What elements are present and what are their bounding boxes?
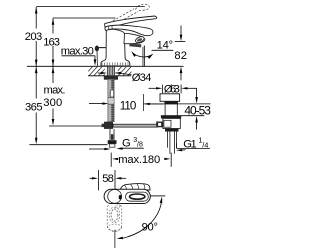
svg-text:90°: 90° (142, 222, 158, 234)
pop-up rod behind body (96, 51, 99, 66)
pop-up rod knob (95, 46, 107, 52)
pop-up waste tailpipe (167, 132, 176, 154)
pop-up waste plug cap (160, 94, 180, 102)
dimension max.300 (43, 67, 65, 126)
faucet spout bump (124, 33, 145, 43)
faucet shank lower threaded section (108, 104, 114, 122)
dimension 40-53 (184, 88, 211, 129)
faucet shank upper threaded section (108, 79, 114, 97)
dimension 163 (43, 18, 60, 66)
spout outlet face (135, 35, 145, 43)
pop-up waste plug underside band (165, 101, 178, 104)
label 90 degrees with arc (117, 197, 163, 240)
pop-up waste locknut (165, 129, 179, 132)
faucet shank smooth section (108, 98, 114, 105)
svg-text:max.: max. (44, 84, 66, 96)
pop-up waste neck (165, 104, 177, 116)
svg-text:G: G (122, 137, 131, 149)
pop-up waste rod connector (156, 122, 163, 128)
dimension Ø34 (98, 72, 152, 84)
pop-up waste body box (163, 118, 180, 128)
dimension 110 (89, 94, 163, 112)
wire top reference line 203 (36, 6, 145, 8)
wire 40-53 upper reference line (144, 103, 211, 105)
pop-up rod pivot block (102, 122, 113, 129)
dimension max.180 (111, 153, 171, 167)
svg-text:110: 110 (120, 99, 137, 112)
label max.30 with leader (61, 45, 97, 66)
label 14 degrees with arc (131, 40, 173, 59)
svg-text:58: 58 (102, 173, 114, 185)
faucet lever raised solid blade (105, 16, 157, 29)
svg-text:365: 365 (25, 102, 43, 114)
faucet lever closed solid blade (105, 25, 153, 36)
svg-text:max.180: max.180 (118, 154, 160, 166)
wire top view swivel reference line (151, 195, 166, 197)
wire max.300 extension line (49, 125, 104, 127)
wire deck bottom line (88, 75, 131, 77)
wire swivel end extension line (114, 230, 116, 248)
faucet base plinth shading (102, 63, 128, 66)
dimension 203 (25, 7, 42, 66)
faucet shank through-deck section (108, 66, 115, 76)
dimension 58 (90, 170, 127, 190)
dimension 82 (174, 26, 187, 81)
wire 365 extension line (29, 144, 107, 146)
faucet lever raised dashed (107, 4, 150, 26)
svg-text:40-53: 40-53 (184, 103, 211, 117)
svg-text:82: 82 (174, 50, 187, 62)
wire reference line 163 (53, 17, 116, 19)
top view lever blob (120, 184, 150, 190)
spout aerator band (129, 44, 141, 48)
pop-up linkage horizontal rod (113, 124, 158, 127)
svg-text:Ø34: Ø34 (132, 72, 152, 84)
deck hatching right (113, 66, 137, 77)
svg-text:/8: /8 (137, 141, 143, 148)
svg-text:G1: G1 (183, 138, 197, 150)
label G1 1/4 with leader (176, 136, 210, 152)
pop-up waste basin flange (161, 116, 181, 119)
top view rotated spout (swivel position) (107, 202, 122, 232)
deck hatching left (84, 66, 113, 77)
wire 40-53 lower reference line (161, 115, 204, 117)
shank washer under deck (104, 76, 118, 80)
label G3/8 with arrows (89, 137, 144, 150)
dimension Ø63 (149, 83, 197, 95)
svg-text:/4: /4 (202, 140, 208, 149)
wire counter top reference line (27, 65, 184, 67)
water stream lines (143, 46, 144, 67)
faucet shank thin lower tube (110, 129, 114, 140)
svg-text:14°: 14° (157, 40, 174, 52)
faucet body (101, 29, 130, 66)
hose end nut G3/8 (108, 140, 117, 147)
dimension 365 (25, 67, 43, 145)
svg-text:203: 203 (25, 31, 42, 43)
top view faucet capsule (104, 189, 150, 203)
svg-text:300: 300 (43, 97, 62, 109)
svg-text:163: 163 (43, 36, 60, 48)
